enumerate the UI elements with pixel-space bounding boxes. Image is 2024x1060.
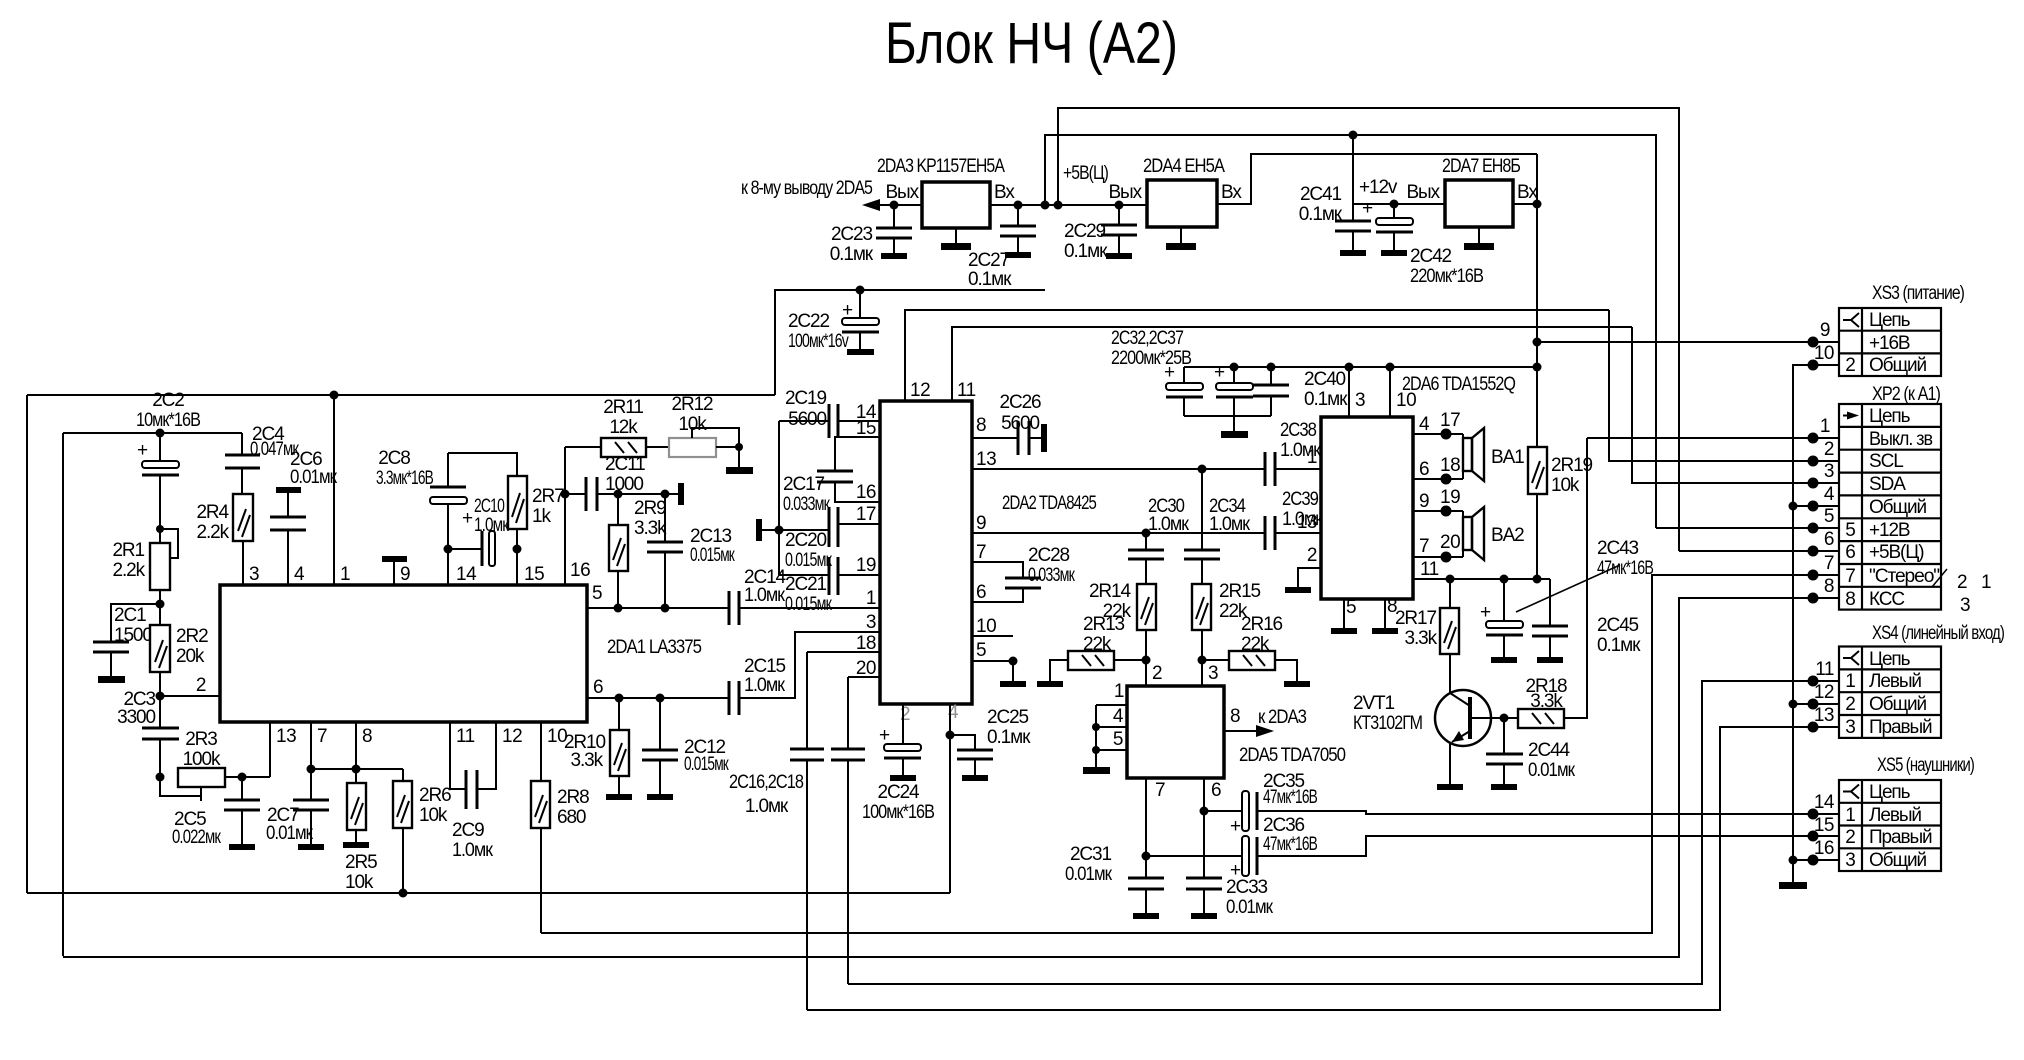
svg-text:Общий: Общий xyxy=(1869,497,1927,518)
svg-text:2DA7 ЕН8Б: 2DA7 ЕН8Б xyxy=(1442,156,1521,177)
svg-text:Блок НЧ (А2): Блок НЧ (А2) xyxy=(885,11,1178,76)
svg-text:КСС: КСС xyxy=(1869,589,1904,610)
svg-text:2200мк*25В: 2200мк*25В xyxy=(1111,348,1191,369)
capacitor 2C22 100мк*16v electrolytic xyxy=(859,290,861,318)
capacitor 2C43 47мк*16В electrolytic xyxy=(1500,575,1509,584)
svg-text:0.1мк: 0.1мк xyxy=(968,269,1012,290)
svg-text:3300: 3300 xyxy=(117,707,155,728)
svg-text:Общий: Общий xyxy=(1869,850,1927,871)
IC 2DA2 TDA8425 xyxy=(880,401,972,704)
svg-text:2: 2 xyxy=(1957,572,1967,593)
pin 10 wire xyxy=(972,635,1013,637)
svg-text:6: 6 xyxy=(593,677,603,698)
svg-text:3: 3 xyxy=(1355,390,1365,411)
svg-text:+12v: +12v xyxy=(1359,177,1398,198)
svg-text:14: 14 xyxy=(456,564,477,585)
svg-text:10k: 10k xyxy=(1551,475,1580,496)
svg-text:2DA3 KP1157EH5A: 2DA3 KP1157EH5A xyxy=(877,156,1005,177)
svg-text:КТ3102ГМ: КТ3102ГМ xyxy=(1353,713,1422,734)
svg-text:9: 9 xyxy=(1820,320,1830,341)
svg-text:0.015мк: 0.015мк xyxy=(785,594,832,615)
wire ground loop y=893 xyxy=(27,892,950,894)
svg-text:+: + xyxy=(1480,602,1491,623)
svg-text:+16В: +16В xyxy=(1869,333,1910,354)
node dot 2C23 xyxy=(890,201,899,210)
svg-text:6: 6 xyxy=(1211,780,1221,801)
wire bank top y=367 xyxy=(1184,366,1537,368)
svg-text:2C41: 2C41 xyxy=(1300,184,1342,205)
svg-text:7: 7 xyxy=(1155,780,1165,801)
node dot pin1 branch xyxy=(330,391,339,400)
svg-text:3: 3 xyxy=(1845,850,1855,871)
capacitor 2C42 220мк*16В electrolytic xyxy=(1390,200,1399,209)
svg-text:+: + xyxy=(1230,816,1241,837)
capacitor 2C20 0.015мк xyxy=(779,529,829,531)
ground 2DA3 xyxy=(955,228,957,243)
svg-text:2: 2 xyxy=(1824,439,1834,460)
svg-text:2C15: 2C15 xyxy=(744,656,786,677)
svg-text:2C19: 2C19 xyxy=(785,388,827,409)
svg-text:1.0мк: 1.0мк xyxy=(744,675,786,696)
svg-text:2C28: 2C28 xyxy=(1028,545,1070,566)
wire XP2 r3 SDA xyxy=(1632,327,1839,483)
svg-text:15: 15 xyxy=(524,564,544,585)
ground for 2R13 xyxy=(1050,660,1068,681)
svg-text:2R14: 2R14 xyxy=(1089,581,1132,602)
ground left pins xyxy=(1095,705,1097,767)
svg-text:2R17: 2R17 xyxy=(1395,608,1437,629)
node dot +12v rail xyxy=(1349,131,1358,140)
svg-text:6: 6 xyxy=(976,582,986,603)
svg-text:2R3: 2R3 xyxy=(185,729,217,750)
svg-text:+: + xyxy=(879,725,890,746)
svg-text:2R11: 2R11 xyxy=(603,397,643,418)
capacitor 2C5 0.022мк xyxy=(241,777,243,800)
node dot 2C22 xyxy=(856,286,865,295)
svg-text:0.01мк: 0.01мк xyxy=(1528,760,1576,781)
svg-text:+12В: +12В xyxy=(1869,520,1910,541)
svg-text:4: 4 xyxy=(1824,484,1835,505)
svg-text:2DA5 TDA7050: 2DA5 TDA7050 xyxy=(1239,745,1345,766)
svg-text:1: 1 xyxy=(340,564,350,585)
capacitor 2C12 0.015мк xyxy=(659,698,661,750)
svg-text:2C20: 2C20 xyxy=(785,530,827,551)
svg-text:2DA1 LA3375: 2DA1 LA3375 xyxy=(607,637,701,658)
svg-text:0.01мк: 0.01мк xyxy=(266,823,314,844)
svg-text:Вх: Вх xyxy=(994,182,1015,203)
svg-text:12k: 12k xyxy=(609,417,638,438)
svg-text:0.1мк: 0.1мк xyxy=(1064,241,1108,262)
svg-text:Выкл. зв: Выкл. зв xyxy=(1869,429,1933,450)
svg-text:1.0мк: 1.0мк xyxy=(1209,514,1251,535)
svg-text:2R15: 2R15 xyxy=(1219,581,1261,602)
svg-text:3: 3 xyxy=(866,612,876,633)
connector dots column xyxy=(1808,337,1819,348)
capacitor 2C31 0.01мк xyxy=(1142,852,1151,861)
svg-text:3: 3 xyxy=(1960,595,1970,616)
capacitor 2C28 0.033мк xyxy=(972,562,1023,578)
svg-text:17: 17 xyxy=(1440,410,1460,431)
svg-text:Вх: Вх xyxy=(1517,182,1538,203)
pin 12 rail xyxy=(905,310,1609,401)
svg-text:2C43: 2C43 xyxy=(1597,538,1639,559)
node dot 2R3 left xyxy=(156,773,165,782)
svg-text:Правый: Правый xyxy=(1869,717,1932,738)
svg-text:1: 1 xyxy=(1845,805,1855,826)
capacitor 2C36 47мк*16В electrolytic xyxy=(1146,855,1242,857)
node dot 2C1 xyxy=(156,600,165,609)
svg-text:20: 20 xyxy=(856,658,876,679)
capacitor 2C1 1500 xyxy=(111,604,160,642)
capacitor 2C44 0.01мк xyxy=(1503,718,1505,754)
wire outer-left loop x=27 xyxy=(26,395,28,893)
svg-text:1k: 1k xyxy=(532,506,551,527)
svg-text:2: 2 xyxy=(1307,545,1317,566)
node dot 2DA7 Vx xyxy=(1533,200,1542,209)
resistor R 2R2 20k xyxy=(150,625,170,672)
capacitor 2C29 0.1мк xyxy=(1115,201,1124,210)
svg-text:1: 1 xyxy=(866,588,876,609)
svg-text:2DA4 ЕН5А: 2DA4 ЕН5А xyxy=(1143,156,1225,177)
svg-text:18: 18 xyxy=(1440,455,1460,476)
svg-text:7: 7 xyxy=(976,542,986,563)
svg-text:2C27: 2C27 xyxy=(968,250,1010,271)
capacitor 2C37 electrolytic xyxy=(1230,363,1239,372)
node dot 2C5 xyxy=(238,773,247,782)
svg-text:"Стерео": "Стерео" xyxy=(1869,566,1939,587)
capacitor 2C34 1.0мк xyxy=(1198,465,1207,474)
resistor R 2R19 10k xyxy=(1528,447,1547,494)
speaker BA2 xyxy=(1462,511,1464,557)
svg-text:1: 1 xyxy=(1307,447,1317,468)
svg-text:8: 8 xyxy=(1824,576,1834,597)
wire 2C8-2R7 top loop xyxy=(448,453,517,476)
wire long rail y=395 xyxy=(27,394,775,396)
svg-text:13: 13 xyxy=(1297,512,1317,533)
svg-text:13: 13 xyxy=(276,726,296,747)
svg-text:2C31: 2C31 xyxy=(1070,844,1112,865)
svg-text:2: 2 xyxy=(1845,694,1855,715)
svg-text:2C11: 2C11 xyxy=(605,454,645,475)
svg-text:1: 1 xyxy=(1981,572,1991,593)
svg-text:2C23: 2C23 xyxy=(831,224,873,245)
capacitor 2C35 47мк*16В electrolytic xyxy=(1204,810,1242,812)
wire XS5 r3 xyxy=(1793,859,1839,861)
svg-text:0.015мк: 0.015мк xyxy=(785,550,832,571)
svg-text:4: 4 xyxy=(294,564,305,585)
svg-text:16: 16 xyxy=(856,482,876,503)
svg-text:20k: 20k xyxy=(176,646,205,667)
svg-text:2.2k: 2.2k xyxy=(112,560,145,581)
node dot 2C2 top xyxy=(156,429,165,438)
svg-text:2C44: 2C44 xyxy=(1528,740,1571,761)
svg-text:2: 2 xyxy=(1845,355,1855,376)
wire 2C36 to XS5 right xyxy=(1257,836,1839,856)
wire vertical +16V bus x=1537 xyxy=(1536,154,1538,447)
wire pin6 row xyxy=(587,697,729,699)
IC 2DA6 TDA1552Q xyxy=(1321,417,1413,599)
svg-text:0.022мк: 0.022мк xyxy=(172,827,221,848)
capacitor 2C17 0.033мк xyxy=(835,437,880,471)
svg-text:0.033мк: 0.033мк xyxy=(783,494,830,515)
resistor R 2R5 10k xyxy=(347,783,366,830)
capacitor 2C13 0.015мк xyxy=(664,494,666,542)
capacitor 2C27 0.1мк xyxy=(1017,205,1019,226)
svg-text:Общий: Общий xyxy=(1869,694,1927,715)
svg-text:2C8: 2C8 xyxy=(378,448,410,469)
wire 2C35 to XS5 left xyxy=(1257,811,1839,814)
svg-text:2C16,2C18: 2C16,2C18 xyxy=(729,772,803,793)
capacitor 2C9 1.0мк xyxy=(450,722,466,789)
svg-text:12: 12 xyxy=(502,726,522,747)
svg-text:1.0мк: 1.0мк xyxy=(1148,514,1190,535)
svg-text:2R16: 2R16 xyxy=(1241,614,1283,635)
svg-text:2C45: 2C45 xyxy=(1597,615,1639,636)
svg-text:5: 5 xyxy=(976,640,986,661)
svg-text:3.3k: 3.3k xyxy=(570,750,603,771)
svg-text:Вых: Вых xyxy=(885,182,919,203)
resistor R 2R1 2.2k with tap xyxy=(160,529,178,558)
svg-text:2C26: 2C26 xyxy=(999,392,1041,413)
svg-text:6: 6 xyxy=(1845,542,1855,563)
svg-text:3.3k: 3.3k xyxy=(1404,628,1437,649)
svg-text:2R8: 2R8 xyxy=(557,787,589,808)
svg-text:13: 13 xyxy=(976,449,996,470)
wire XP2 r1 xyxy=(1587,437,1839,439)
wire XP2 r7 stereo xyxy=(541,575,1839,933)
capacitor 2C45 0.1мк xyxy=(1549,579,1551,626)
regulator U 2DA4 EH5A xyxy=(1147,180,1217,227)
regulator U 2DA7 EH8Б xyxy=(1445,180,1513,227)
pin 20 wire xyxy=(848,676,880,678)
capacitor 2C21 0.015мк xyxy=(779,574,829,576)
wire pin2 xyxy=(160,695,220,697)
svg-text:20: 20 xyxy=(1440,532,1460,553)
node dot x=1045 xyxy=(1041,201,1050,210)
svg-text:7: 7 xyxy=(1845,566,1855,587)
svg-text:22k: 22k xyxy=(1103,601,1132,622)
left cap bus x=779 xyxy=(778,421,780,575)
IC 2DA1 LA3375 xyxy=(220,585,587,722)
wire XS4 r3 xyxy=(807,727,1839,1010)
svg-text:2C2: 2C2 xyxy=(152,390,184,411)
svg-text:5: 5 xyxy=(1824,506,1834,527)
wire vertical x=565 to pin16 xyxy=(564,447,566,585)
svg-text:13: 13 xyxy=(1814,705,1834,726)
resistor R 2R17 3.3k xyxy=(1446,575,1455,584)
svg-text:10: 10 xyxy=(976,616,996,637)
svg-text:0.1мк: 0.1мк xyxy=(1597,635,1641,656)
capacitor 2C16 line xyxy=(806,652,808,749)
svg-text:1: 1 xyxy=(1820,416,1830,437)
svg-text:5: 5 xyxy=(592,583,602,604)
svg-text:10k: 10k xyxy=(345,872,374,893)
wire XP2 r4 xyxy=(1793,505,1839,507)
svg-text:2C24: 2C24 xyxy=(877,782,920,803)
svg-text:3.3мк*16В: 3.3мк*16В xyxy=(376,468,433,489)
svg-text:2R4: 2R4 xyxy=(196,502,229,523)
svg-text:5: 5 xyxy=(1113,729,1123,750)
capacitor 2C41 0.1мк xyxy=(1352,204,1354,221)
svg-text:+: + xyxy=(1362,198,1373,219)
svg-text:9: 9 xyxy=(976,513,986,534)
node dot pin2 xyxy=(156,692,165,701)
svg-text:2C39: 2C39 xyxy=(1282,489,1318,510)
svg-text:Цепь: Цепь xyxy=(1869,782,1911,803)
node dot 2R1 tap xyxy=(156,525,164,533)
svg-text:к 2DA3: к 2DA3 xyxy=(1258,707,1306,728)
wire XP2 r2 SCL xyxy=(1609,310,1839,461)
svg-text:9: 9 xyxy=(1419,491,1429,512)
resistor R 2R6 10k xyxy=(402,769,404,781)
svg-text:2C36: 2C36 xyxy=(1263,815,1305,836)
svg-text:2: 2 xyxy=(900,704,910,725)
svg-text:+5В(Ц): +5В(Ц) xyxy=(1869,542,1924,563)
capacitor 2C33 0.01мк xyxy=(1200,807,1209,816)
svg-text:14: 14 xyxy=(1814,792,1835,813)
node dot x=1058 xyxy=(1054,201,1063,210)
svg-text:2C42: 2C42 xyxy=(1410,246,1452,267)
wire pin15 riser xyxy=(516,549,518,585)
terminator bar left xyxy=(756,519,762,541)
node dot 2C27 xyxy=(1014,201,1023,210)
resistor R 2R8 680 xyxy=(540,722,542,781)
svg-text:+: + xyxy=(1164,362,1175,383)
svg-text:7: 7 xyxy=(1419,536,1429,557)
wire +12V rail y=135 xyxy=(1045,135,1656,528)
svg-text:16: 16 xyxy=(570,560,590,581)
svg-text:XP2 (к А1): XP2 (к А1) xyxy=(1872,384,1941,405)
wire pin13 row to 2DA6 pin1 xyxy=(972,468,1265,470)
svg-text:+5В(Ц): +5В(Ц) xyxy=(1063,163,1109,184)
svg-text:10: 10 xyxy=(1396,390,1416,411)
pin 18 wire xyxy=(807,651,880,653)
svg-text:17: 17 xyxy=(856,504,876,525)
svg-text:Правый: Правый xyxy=(1869,827,1932,848)
wire XP2 r8 KCC xyxy=(63,598,1839,957)
svg-text:1.0мк: 1.0мк xyxy=(744,585,786,606)
svg-text:Цепь: Цепь xyxy=(1869,406,1911,427)
svg-text:0.01мк: 0.01мк xyxy=(1226,897,1274,918)
svg-text:0.015мк: 0.015мк xyxy=(684,754,729,775)
svg-text:100мк*16v: 100мк*16v xyxy=(788,331,849,352)
svg-text:SCL: SCL xyxy=(1869,451,1903,472)
resistor R 2R4 2.2k xyxy=(233,494,253,541)
svg-text:47мк*16В: 47мк*16В xyxy=(1263,787,1317,808)
svg-text:BA2: BA2 xyxy=(1491,525,1524,546)
svg-text:XS3 (питание): XS3 (питание) xyxy=(1872,283,1965,304)
svg-text:0.1мк: 0.1мк xyxy=(1304,389,1348,410)
svg-text:19: 19 xyxy=(1440,487,1460,508)
ground 2DA4 xyxy=(1180,227,1182,243)
svg-text:5600: 5600 xyxy=(1001,413,1039,434)
svg-text:4: 4 xyxy=(1419,414,1430,435)
wire +12v branch x=1353 xyxy=(1353,135,1445,204)
svg-text:8: 8 xyxy=(976,415,986,436)
svg-text:2DA2 TDA8425: 2DA2 TDA8425 xyxy=(1002,493,1096,514)
wire XP2 r6 +5B xyxy=(1679,550,1839,552)
speaker BA1 xyxy=(1462,434,1464,479)
svg-text:2C22: 2C22 xyxy=(788,311,830,332)
svg-text:6: 6 xyxy=(1824,529,1834,550)
svg-text:8: 8 xyxy=(362,726,372,747)
svg-text:7: 7 xyxy=(317,726,327,747)
svg-text:SDA: SDA xyxy=(1869,474,1906,495)
pin 10 stub xyxy=(1389,367,1391,417)
wire 2DA4 Vx to 2DA7 rail y=154 xyxy=(1217,154,1537,204)
svg-text:220мк*16В: 220мк*16В xyxy=(1410,266,1483,287)
resistor R 2R7 1k xyxy=(508,476,527,529)
wire 2DA3 input row y=205 xyxy=(990,204,1147,206)
svg-text:1: 1 xyxy=(1845,671,1855,692)
svg-text:2C21: 2C21 xyxy=(785,574,827,595)
wire vertical x=63 xyxy=(62,433,64,956)
svg-text:47мк*16В: 47мк*16В xyxy=(1263,834,1317,855)
svg-text:+: + xyxy=(137,440,148,461)
svg-text:Вых: Вых xyxy=(1406,182,1440,203)
wire pin7-pin8 row y=769 xyxy=(311,722,403,769)
svg-text:5: 5 xyxy=(1845,520,1855,541)
wire +5V top rail y=108 xyxy=(1058,108,1679,551)
svg-text:4: 4 xyxy=(1113,706,1124,727)
svg-text:2C25: 2C25 xyxy=(987,707,1029,728)
svg-text:12: 12 xyxy=(1814,682,1834,703)
capacitor 2C18 line xyxy=(847,677,849,749)
svg-text:2DA6 TDA1552Q: 2DA6 TDA1552Q xyxy=(1402,374,1515,395)
wire XS4 r1 xyxy=(848,681,1839,984)
capacitor 2C7 0.01мк xyxy=(310,769,312,800)
svg-text:2C40: 2C40 xyxy=(1304,369,1346,390)
wire XS4 r2 xyxy=(1793,703,1839,705)
pin9 open bar xyxy=(382,556,407,562)
pin 11 rail xyxy=(952,327,1632,401)
svg-text:5: 5 xyxy=(1346,597,1356,618)
svg-text:10: 10 xyxy=(1814,343,1834,364)
svg-text:0.1мк: 0.1мк xyxy=(987,727,1031,748)
svg-text:2R6: 2R6 xyxy=(419,785,451,806)
base wire xyxy=(1470,717,1518,719)
svg-text:2R7: 2R7 xyxy=(532,486,564,507)
svg-text:11: 11 xyxy=(957,380,976,401)
svg-text:Цепь: Цепь xyxy=(1869,649,1911,670)
svg-text:BA1: BA1 xyxy=(1491,447,1524,468)
svg-text:6: 6 xyxy=(1419,459,1429,480)
svg-text:0.01мк: 0.01мк xyxy=(1065,864,1113,885)
svg-text:11: 11 xyxy=(1815,659,1834,680)
svg-text:3: 3 xyxy=(249,564,259,585)
svg-text:15: 15 xyxy=(856,418,876,439)
svg-text:0.1мк: 0.1мк xyxy=(830,244,874,265)
svg-text:0.1мк: 0.1мк xyxy=(1299,204,1343,225)
svg-text:2C32,2C37: 2C32,2C37 xyxy=(1111,328,1183,349)
svg-text:2.2k: 2.2k xyxy=(196,522,229,543)
svg-text:10мк*16В: 10мк*16В xyxy=(136,410,200,431)
svg-text:2R5: 2R5 xyxy=(345,852,377,873)
svg-text:16: 16 xyxy=(1814,838,1834,859)
svg-text:+: + xyxy=(1230,860,1241,881)
svg-text:2C13: 2C13 xyxy=(690,526,732,547)
capacitor 2C23 0.1мк xyxy=(893,205,895,228)
svg-text:к 8-му выводу 2DA5: к 8-му выводу 2DA5 xyxy=(741,178,872,199)
svg-text:XS5 (наушники): XS5 (наушники) xyxy=(1877,755,1975,776)
svg-text:2C38: 2C38 xyxy=(1280,420,1316,441)
svg-text:Общий: Общий xyxy=(1869,355,1927,376)
svg-text:19: 19 xyxy=(856,555,876,576)
svg-text:Цепь: Цепь xyxy=(1869,310,1911,331)
svg-text:12: 12 xyxy=(910,380,930,401)
svg-text:1000: 1000 xyxy=(605,474,643,495)
capacitor 2C40 0.1мк xyxy=(1267,363,1276,372)
